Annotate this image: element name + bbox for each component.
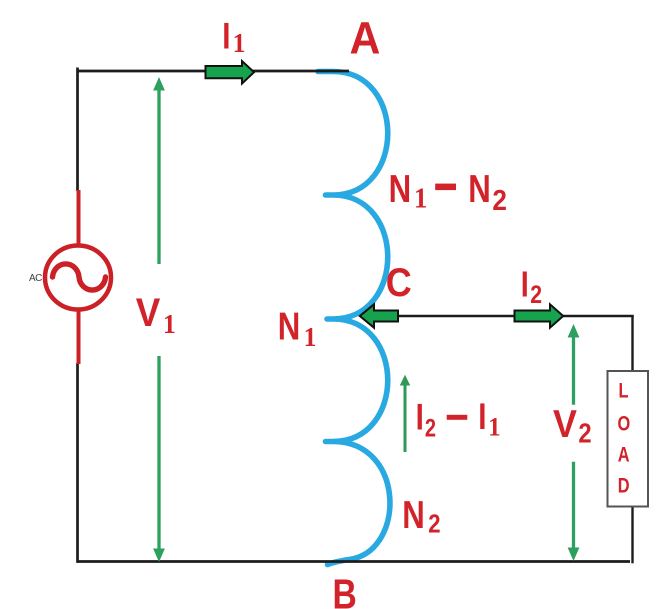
label N2 (bottom winding) <box>402 494 425 537</box>
label N1 (at tap) <box>278 305 301 348</box>
AC source upper red lead <box>77 190 81 246</box>
wire tap C to load <box>399 315 634 318</box>
svg-text:O: O <box>618 412 631 435</box>
load label D <box>618 474 630 497</box>
svg-text:2: 2 <box>428 510 440 539</box>
svg-text:I: I <box>521 263 529 304</box>
svg-text:I: I <box>222 16 230 57</box>
svg-text:AC: AC <box>29 273 42 284</box>
svg-text:C: C <box>386 261 412 305</box>
load label O <box>618 412 631 435</box>
current arrow into tap C (block arrow pointing left) <box>360 304 398 327</box>
current arrow I1 (block arrow on top wire) <box>206 61 255 84</box>
label I2-I1 <box>416 397 424 438</box>
AC source circle <box>45 246 111 310</box>
svg-text:2: 2 <box>492 184 507 217</box>
svg-text:1: 1 <box>233 29 246 59</box>
svg-text:N: N <box>402 494 425 537</box>
label V2 <box>553 402 577 446</box>
svg-text:2: 2 <box>425 414 436 442</box>
svg-text:1: 1 <box>488 413 500 442</box>
svg-text:A: A <box>618 443 630 466</box>
label A <box>350 14 381 64</box>
svg-text:1: 1 <box>163 309 176 339</box>
AC source lower red lead <box>77 309 81 364</box>
wire top (node A feed) <box>77 70 349 73</box>
svg-text:1: 1 <box>414 183 427 214</box>
voltage arrow V2 (double headed, load side) <box>568 324 580 561</box>
wire left vertical lower <box>76 363 79 563</box>
svg-text:2: 2 <box>530 280 542 308</box>
wire right vertical lower (load to B) <box>631 507 633 563</box>
svg-text:V: V <box>553 402 577 446</box>
svg-text:A: A <box>350 14 381 64</box>
current arrow I2-I1 (small arrow inside winding) <box>400 375 410 452</box>
svg-text:V: V <box>136 291 161 336</box>
label I2 <box>521 263 529 304</box>
wire right vertical upper (to load) <box>631 316 633 371</box>
load label A <box>618 443 630 466</box>
load label L <box>619 379 629 402</box>
label V1 <box>136 291 161 336</box>
svg-text:N: N <box>389 168 412 211</box>
svg-text:1: 1 <box>304 322 317 352</box>
voltage arrow V1 (double headed, left loop) <box>153 77 165 562</box>
svg-text:N: N <box>468 168 491 211</box>
label N1 - N2 <box>389 168 412 211</box>
svg-text:D: D <box>618 474 630 497</box>
AC source sine wave <box>53 264 106 290</box>
wire bottom (node B) <box>77 560 630 563</box>
svg-text:N: N <box>278 305 301 348</box>
svg-text:I: I <box>416 397 424 438</box>
label I1 <box>222 16 230 57</box>
svg-text:2: 2 <box>578 417 591 449</box>
svg-text:L: L <box>619 379 629 402</box>
current arrow I2 (block arrow pointing right) <box>515 304 564 327</box>
autotransformer winding N1 (four turns, tap at C) <box>318 72 390 565</box>
wire left vertical upper <box>76 68 79 192</box>
label B <box>333 572 357 609</box>
svg-text:I: I <box>478 397 486 438</box>
svg-text:B: B <box>333 572 357 609</box>
load box <box>608 371 649 507</box>
label C <box>386 261 412 305</box>
